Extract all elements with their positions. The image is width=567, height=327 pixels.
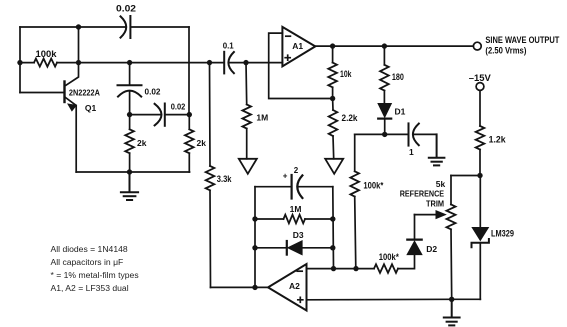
resistor 2.2k xyxy=(329,110,338,136)
svg-text:1M: 1M xyxy=(290,204,302,214)
node D3 left xyxy=(252,245,257,250)
arrow-ground 2.2k xyxy=(325,159,343,174)
node A2 out fb xyxy=(252,285,257,290)
svg-text:A2: A2 xyxy=(289,281,300,291)
wire fb left vertical xyxy=(254,187,256,288)
svg-text:Q1: Q1 xyxy=(85,103,97,113)
node D1 bottom xyxy=(382,132,387,137)
resistor 2k right xyxy=(185,129,194,153)
wire A1 feedback loop xyxy=(269,33,333,98)
terminal output xyxy=(473,42,481,50)
svg-text:180: 180 xyxy=(392,72,404,82)
terminal -15V xyxy=(476,83,484,91)
node wien ground xyxy=(127,169,132,174)
wire A1 output xyxy=(315,45,473,47)
node wien right xyxy=(187,112,192,117)
svg-text:D1: D1 xyxy=(395,107,406,117)
capacitor 0.02 horizontal xyxy=(130,103,190,126)
wire A2 minus input xyxy=(307,268,375,270)
resistor 10k xyxy=(328,63,337,88)
svg-text:2N2222A: 2N2222A xyxy=(69,88,100,97)
diode D2 xyxy=(407,215,437,255)
wire collector vertical xyxy=(78,27,80,63)
arrow-ground 1M xyxy=(239,159,257,174)
node fb-minus xyxy=(331,266,336,271)
svg-text:D2: D2 xyxy=(426,244,437,254)
wire top-rail drop xyxy=(188,27,190,115)
capacitor 1 xyxy=(355,123,437,157)
node 180 top xyxy=(382,43,387,48)
svg-text:100k*: 100k* xyxy=(379,252,399,262)
svg-text:0.02: 0.02 xyxy=(116,4,136,14)
wire D2 bottom xyxy=(398,255,415,269)
wire top rail xyxy=(20,26,189,28)
resistor 1M input xyxy=(242,105,251,129)
svg-text:All capacitors in μF: All capacitors in μF xyxy=(51,257,124,267)
node 10k top xyxy=(330,43,335,48)
wire A2 plus input / bottom rail xyxy=(307,298,481,301)
svg-text:2k: 2k xyxy=(137,138,147,148)
svg-text:5k: 5k xyxy=(436,179,446,189)
svg-text:2k: 2k xyxy=(197,138,207,148)
svg-text:2.2k: 2.2k xyxy=(342,113,359,123)
svg-text:1: 1 xyxy=(409,147,414,157)
svg-text:A1, A2 = LF353 dual: A1, A2 = LF353 dual xyxy=(51,283,129,293)
resistor 100k* vertical xyxy=(350,171,359,196)
svg-text:A1: A1 xyxy=(292,41,303,51)
svg-text:* = 1% metal-film types: * = 1% metal-film types xyxy=(51,270,139,280)
svg-text:100k: 100k xyxy=(36,49,58,59)
svg-text:1.2k: 1.2k xyxy=(489,135,507,145)
node wien mid xyxy=(127,112,132,117)
node fb xyxy=(330,96,335,101)
node rail-top-left xyxy=(17,60,22,65)
node collector top xyxy=(76,24,81,29)
node 0.1 left xyxy=(207,60,212,65)
resistor 1.2k xyxy=(476,126,485,150)
node bottom ground xyxy=(449,297,454,302)
svg-text:LM329: LM329 xyxy=(491,228,514,238)
svg-text:–15V: –15V xyxy=(469,73,491,83)
ground bottom right xyxy=(444,299,460,325)
capacitor 0.1 xyxy=(223,41,235,73)
svg-text:2: 2 xyxy=(294,166,299,175)
wire fb right vertical xyxy=(332,187,335,269)
node 1M fb right xyxy=(330,216,335,221)
notes text xyxy=(51,244,139,293)
node D3 right xyxy=(330,245,335,250)
capacitor C 0.02 top xyxy=(121,16,131,38)
wire pot top xyxy=(451,175,480,177)
svg-text:0.1: 0.1 xyxy=(223,41,235,50)
svg-text:D3: D3 xyxy=(293,230,304,240)
diode D1 xyxy=(378,104,405,135)
node 1.2k bottom xyxy=(477,173,482,178)
node rail C1 xyxy=(127,60,132,65)
node collector rail xyxy=(76,60,81,65)
op-amp A2 xyxy=(268,264,307,311)
svg-text:10k: 10k xyxy=(340,69,352,79)
resistor 180 xyxy=(380,65,389,91)
svg-text:0.02: 0.02 xyxy=(145,87,162,96)
svg-text:REFERENCE: REFERENCE xyxy=(400,188,445,198)
svg-text:TRIM: TRIM xyxy=(426,198,444,208)
node 100k-minus xyxy=(353,266,358,271)
wire main rail xyxy=(20,62,283,64)
resistor 2k left xyxy=(125,129,134,153)
capacitor 2 electrolytic xyxy=(255,166,333,199)
node 0.1 right xyxy=(243,60,248,65)
svg-text:All diodes = 1N4148: All diodes = 1N4148 xyxy=(51,244,128,254)
svg-text:1M: 1M xyxy=(256,113,268,123)
resistor 1M fb xyxy=(284,215,306,224)
ground wien xyxy=(121,172,138,200)
svg-text:(2.50 Vrms): (2.50 Vrms) xyxy=(485,46,526,56)
resistor 100k xyxy=(34,59,57,67)
ground cap1 xyxy=(429,134,445,165)
svg-text:SINE WAVE OUTPUT: SINE WAVE OUTPUT xyxy=(485,35,559,45)
wire A2 output xyxy=(211,286,269,288)
transistor Q1 2N2222A xyxy=(20,63,100,113)
capacitor 0.02 vertical xyxy=(118,63,162,115)
wire A2 output riser xyxy=(210,63,211,288)
wire emitter down xyxy=(75,106,77,173)
node 1M fb left xyxy=(252,216,257,221)
diode D3 xyxy=(255,230,333,255)
op-amp A1 xyxy=(282,27,315,66)
wire wien bottom rail xyxy=(76,171,189,173)
resistor 3.3k xyxy=(206,166,215,190)
resistor 100k* horizontal xyxy=(374,264,398,273)
svg-text:+: + xyxy=(283,172,288,181)
svg-text:0.02: 0.02 xyxy=(171,103,186,112)
wire pot wiper xyxy=(415,214,438,216)
zener LM329 xyxy=(472,176,515,300)
svg-text:3.3k: 3.3k xyxy=(217,174,233,184)
wire left vertical xyxy=(19,27,21,93)
pot 5k REFERENCE TRIM xyxy=(447,205,456,230)
svg-text:100k*: 100k* xyxy=(363,181,383,191)
